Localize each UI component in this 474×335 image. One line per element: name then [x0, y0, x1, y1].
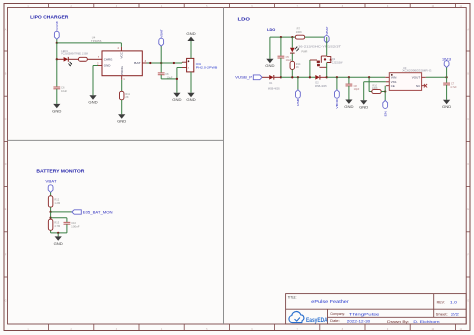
svg-text:10pF: 10pF [354, 88, 360, 91]
svg-text:PH2.0-2PWB: PH2.0-2PWB [196, 65, 218, 69]
svg-text:TITLE:: TITLE: [288, 295, 297, 299]
svg-text:G: G [5, 300, 7, 303]
svg-text:GND: GND [172, 98, 182, 102]
svg-text:1.0: 1.0 [450, 300, 457, 304]
svg-text:R12: R12 [54, 197, 59, 201]
svg-text:GND: GND [265, 64, 275, 68]
svg-text:CJ2313W: CJ2313W [332, 61, 343, 64]
svg-text:LDO: LDO [267, 27, 275, 32]
svg-text:D. Eichhorn: D. Eichhorn [413, 320, 439, 324]
svg-text:GND: GND [117, 120, 127, 124]
svg-text:VOUT: VOUT [412, 76, 421, 80]
svg-text:VBOK: VBOK [335, 99, 339, 109]
svg-text:GND: GND [104, 64, 111, 68]
svg-text:2/2: 2/2 [451, 312, 459, 316]
svg-text:MSB-4005: MSB-4005 [315, 85, 327, 88]
svg-text:XC6209B332MR-G: XC6209B332MR-G [402, 69, 431, 73]
svg-text:BATTERY MONITOR: BATTERY MONITOR [36, 169, 85, 174]
svg-text:2022-12-30: 2022-12-30 [347, 319, 370, 323]
svg-text:GND: GND [52, 109, 62, 113]
svg-text:ThingPulse: ThingPulse [349, 312, 380, 316]
svg-text:16-213/GHC-YR1S2/3T: 16-213/GHC-YR1S2/3T [298, 46, 342, 49]
svg-text:VUSB_P: VUSB_P [235, 76, 252, 80]
svg-text:GND: GND [54, 242, 64, 246]
svg-text:1K: 1K [296, 66, 299, 69]
svg-text:PCJ1005WB-TRNB1 1.50M: PCJ1005WB-TRNB1 1.50M [61, 53, 88, 56]
svg-text:EN: EN [384, 111, 388, 116]
svg-text:LDO: LDO [238, 16, 251, 21]
svg-text:D: D [467, 163, 469, 166]
svg-text:GND: GND [442, 105, 452, 109]
svg-text:VBAT: VBAT [45, 179, 56, 183]
svg-text:C: C [5, 118, 7, 121]
svg-text:EasyEDA: EasyEDA [306, 317, 328, 324]
svg-text:1.2M: 1.2M [54, 201, 60, 205]
svg-text:VBAT: VBAT [325, 26, 329, 35]
svg-text:LIPO CHARGER: LIPO CHARGER [30, 14, 69, 19]
svg-text:VBAT: VBAT [159, 29, 163, 38]
svg-text:4.7M: 4.7M [54, 224, 60, 228]
svg-text:GND: GND [186, 32, 196, 36]
svg-text:2K: 2K [125, 95, 128, 99]
svg-text:Drawn By:: Drawn By: [387, 320, 409, 324]
svg-text:D: D [5, 163, 7, 166]
svg-text:10uF: 10uF [167, 75, 173, 79]
svg-text:C: C [467, 118, 469, 121]
svg-text:NC: NC [416, 84, 420, 88]
svg-text:VCC: VCC [120, 51, 124, 58]
svg-text:REV:: REV: [437, 300, 445, 304]
svg-text:C10: C10 [71, 221, 76, 225]
svg-text:MSB-4005: MSB-4005 [268, 88, 280, 91]
svg-text:5V-USB: 5V-USB [55, 21, 59, 30]
svg-text:E05_BAT_MON: E05_BAT_MON [83, 210, 114, 214]
svg-text:ePulse Feather: ePulse Feather [311, 299, 349, 304]
svg-text:CE: CE [391, 84, 395, 88]
svg-text:100nF: 100nF [71, 225, 80, 229]
svg-text:10uF: 10uF [61, 89, 67, 93]
svg-text:Sheet:: Sheet: [436, 312, 448, 316]
svg-text:4.7uF: 4.7uF [450, 86, 457, 89]
svg-text:GND: GND [186, 98, 196, 102]
svg-text:BAT: BAT [134, 61, 141, 65]
svg-text:100K: 100K [372, 87, 378, 90]
svg-text:TP4056: TP4056 [91, 39, 102, 43]
svg-text:GND: GND [359, 106, 369, 110]
svg-text:CHRG: CHRG [104, 57, 113, 61]
svg-text:CN1: CN1 [196, 62, 202, 66]
svg-text:100K: 100K [296, 30, 302, 34]
svg-text:Date:: Date: [330, 319, 340, 323]
svg-text:PROG: PROG [120, 65, 124, 74]
svg-text:USB: USB [296, 99, 300, 106]
svg-text:GND: GND [88, 101, 98, 105]
svg-text:G: G [467, 300, 469, 303]
svg-text:PWR: PWR [301, 50, 307, 54]
svg-text:VIN: VIN [391, 76, 397, 80]
svg-text:Company:: Company: [330, 312, 345, 316]
svg-text:R13: R13 [54, 220, 59, 224]
svg-text:GND: GND [344, 105, 354, 109]
